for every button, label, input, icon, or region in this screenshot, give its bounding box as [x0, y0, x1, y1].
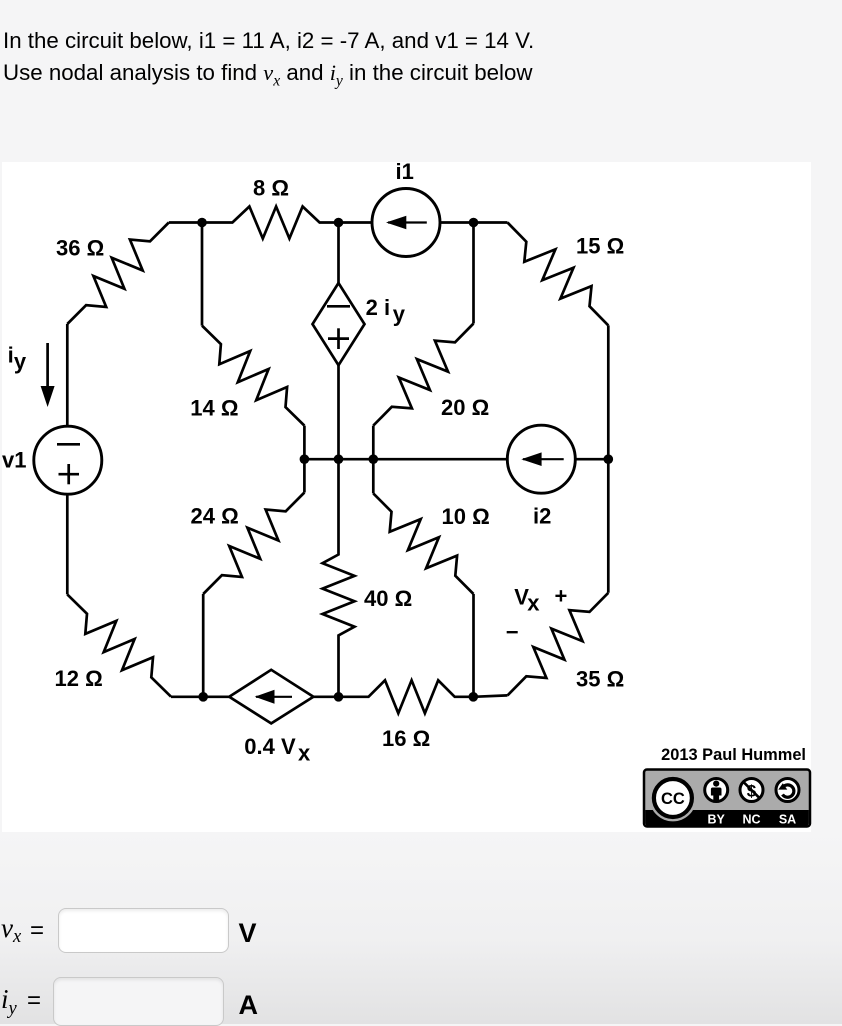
- wire top rail left segment (node A to 36 ohm bend): [169, 221, 202, 224]
- junction node E1 (mid left): [300, 454, 310, 464]
- svg-text:y: y: [393, 301, 406, 326]
- dependent source 2iy (diamond): [313, 283, 365, 365]
- junction node H (bottom middle): [334, 692, 344, 702]
- resistor 20 ohm: [373, 324, 473, 426]
- resistor 10 ohm: [373, 493, 473, 594]
- svg-text:15 Ω: 15 Ω: [576, 234, 624, 259]
- svg-text:35 Ω: 35 Ω: [576, 666, 624, 691]
- problem statement line 2: [3, 60, 532, 90]
- svg-text:24 Ω: 24 Ω: [191, 503, 239, 528]
- label 24 ohm: [191, 503, 239, 528]
- wire i1 to node C to 15 ohm: [440, 221, 508, 224]
- current source i1: [372, 189, 440, 257]
- svg-text:i2: i2: [533, 504, 551, 529]
- svg-text:2013 Paul Hummel: 2013 Paul Hummel: [661, 746, 806, 764]
- white drawing canvas: [2, 162, 811, 832]
- resistor 8 ohm: [202, 207, 339, 239]
- SA icon (share-alike arrow): [776, 779, 799, 802]
- svg-text:NC: NC: [742, 813, 760, 827]
- junction node I (bottom right): [469, 692, 479, 702]
- BY NC SA labels: [708, 813, 797, 827]
- label 2iy: [366, 295, 406, 326]
- wire 14 ohm to node E1: [303, 426, 306, 460]
- svg-text:12 Ω: 12 Ω: [55, 666, 103, 691]
- wire 2iy to node E2: [337, 365, 340, 459]
- problem statement line 1: [3, 28, 534, 54]
- current source i2: [507, 425, 575, 493]
- label 14 ohm: [190, 395, 238, 420]
- svg-text:0.4 V: 0.4 V: [244, 734, 296, 759]
- wire 24 ohm to bottom rail: [202, 594, 205, 697]
- label Vx plus: [514, 584, 567, 616]
- label 40 ohm: [364, 586, 412, 611]
- svg-text:x: x: [298, 741, 311, 766]
- junction node B (top middle): [334, 218, 344, 228]
- wire node E1 down: [303, 459, 306, 492]
- wire node B down: [337, 223, 340, 284]
- BY icon (person): [705, 779, 728, 802]
- wire node B to i1: [339, 221, 373, 224]
- junction node C (top right): [469, 218, 479, 228]
- resistor 35 ohm: [508, 593, 609, 696]
- wire node C down: [472, 223, 475, 324]
- wire right rail: [607, 325, 610, 592]
- input box iy: [53, 977, 224, 1026]
- junction node F (mid far right): [604, 454, 614, 464]
- label 35 ohm: [576, 666, 624, 691]
- svg-text:y: y: [14, 349, 27, 374]
- resistor 16 ohm: [339, 680, 474, 713]
- label i2: [533, 504, 551, 529]
- svg-text:14 Ω: 14 Ω: [190, 395, 238, 420]
- CC license badge background: [644, 770, 810, 827]
- wire 36 ohm to v1: [66, 324, 69, 426]
- wire v1 to 12 ohm: [66, 494, 69, 594]
- svg-text:CC: CC: [661, 790, 685, 808]
- resistor 15 ohm: [508, 223, 609, 326]
- resistor 12 ohm: [67, 594, 171, 696]
- junction node E2 (mid center): [334, 454, 344, 464]
- svg-text:2 i: 2 i: [366, 295, 390, 320]
- junction node E3 (mid right): [369, 454, 379, 464]
- svg-text:40 Ω: 40 Ω: [364, 586, 412, 611]
- wire bottom rail left: [171, 695, 229, 698]
- wire 10 ohm to bottom rail: [472, 594, 475, 697]
- svg-text:−: −: [506, 620, 519, 645]
- current label arrow iy: [41, 343, 55, 407]
- junction node A (top left): [197, 218, 207, 228]
- label 15 ohm: [576, 234, 624, 259]
- svg-text:8 Ω: 8 Ω: [253, 176, 289, 201]
- wire bottom rail right: [473, 695, 507, 696]
- label 10 ohm: [442, 504, 490, 529]
- label 0.4Vx: [244, 734, 311, 766]
- label 16 ohm: [382, 726, 430, 751]
- resistor 14 ohm: [202, 326, 304, 426]
- wire node E3 down: [372, 459, 375, 493]
- label 8 ohm: [253, 176, 289, 201]
- wire i2 to right rail: [575, 458, 608, 461]
- label 36 ohm: [56, 236, 104, 261]
- answer row iy: [1, 984, 17, 1020]
- wire middle rail: [304, 458, 507, 461]
- resistor 40 ohm: [323, 459, 355, 697]
- svg-text:16 Ω: 16 Ω: [382, 726, 430, 751]
- label i1: [396, 159, 414, 184]
- svg-text:v1: v1: [2, 448, 26, 473]
- label 20 ohm: [441, 395, 489, 420]
- junction node G (bottom left): [198, 692, 208, 702]
- dependent source 0.4Vx (diamond): [229, 670, 313, 724]
- svg-text:x: x: [527, 591, 540, 616]
- svg-text:SA: SA: [779, 813, 796, 827]
- CC logo circle: [650, 775, 697, 822]
- input box vx: [58, 908, 229, 953]
- svg-text:i: i: [8, 342, 14, 367]
- voltage source v1: [34, 426, 102, 494]
- NC icon (no dollar): [740, 779, 763, 802]
- svg-text:10 Ω: 10 Ω: [442, 504, 490, 529]
- resistor 24 ohm: [203, 493, 304, 595]
- svg-text:i1: i1: [396, 159, 414, 184]
- label 12 ohm: [55, 666, 103, 691]
- svg-text:+: +: [555, 584, 568, 609]
- answer row vx: [1, 913, 21, 948]
- resistor 36 ohm: [67, 223, 169, 325]
- label iy: [8, 342, 27, 374]
- svg-text:36 Ω: 36 Ω: [56, 236, 104, 261]
- credit text: [661, 746, 806, 764]
- svg-text:20 Ω: 20 Ω: [441, 395, 489, 420]
- wire 20 ohm to node E3: [372, 426, 375, 460]
- wire diamond to node B2: [313, 695, 338, 698]
- wire node A down: [201, 223, 204, 326]
- label Vx minus: [506, 620, 519, 645]
- label v1: [2, 448, 26, 473]
- svg-text:BY: BY: [708, 813, 726, 827]
